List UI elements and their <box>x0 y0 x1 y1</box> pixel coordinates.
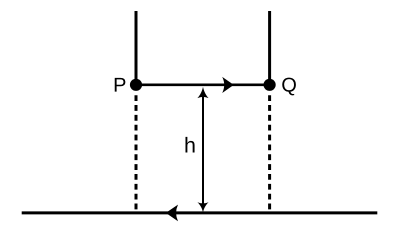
dashed projection line below Q <box>268 95 271 210</box>
dimension arrow h: vertical shaft <box>202 94 204 205</box>
current direction arrow on bottom conductor (pointing left) <box>166 205 178 222</box>
current direction arrow on wire P-Q (pointing right) <box>222 77 234 93</box>
node P (junction dot) <box>130 79 142 91</box>
wire: long bottom conductor <box>22 211 378 214</box>
wire: left vertical lead into P <box>135 11 138 85</box>
dimension arrow h: top arrowhead (pointing up) <box>197 87 208 98</box>
label h <box>185 137 194 153</box>
dashed projection line below P <box>135 95 138 210</box>
node Q (junction dot) <box>264 79 276 91</box>
dimension arrow h: bottom arrowhead (pointing down) <box>197 202 208 212</box>
label P <box>115 78 126 92</box>
wire: right vertical lead into Q <box>268 11 271 85</box>
wire: horizontal conductor P-Q <box>136 84 270 87</box>
label Q <box>282 78 296 96</box>
